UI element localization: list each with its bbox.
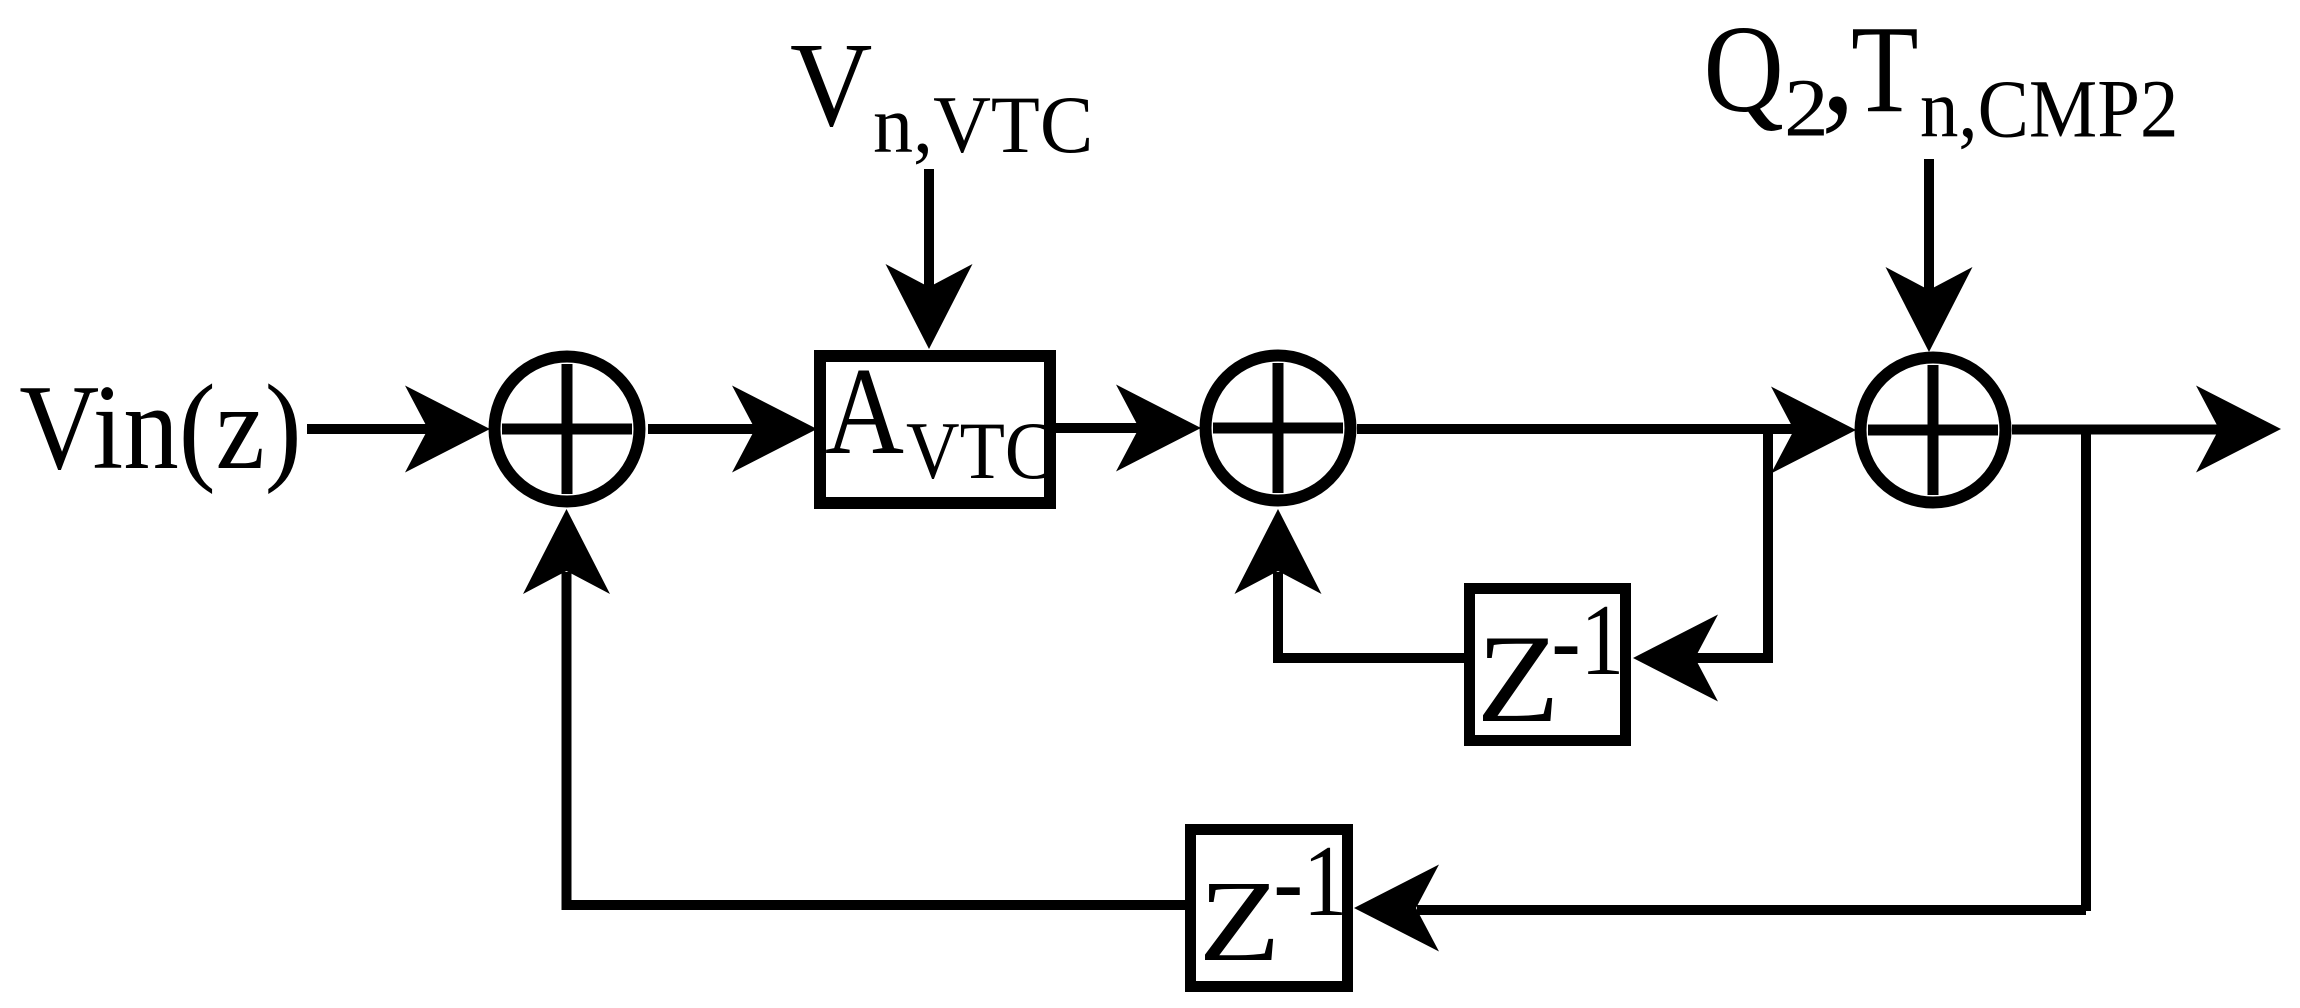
svg-text:Q: Q — [1704, 0, 1784, 138]
wire Z1 output to S2 — [1278, 572, 1464, 658]
wire S2 to summer S3 — [1357, 424, 1800, 434]
plus sign S1 — [502, 364, 632, 494]
svg-text:V: V — [790, 18, 872, 152]
wire A_VTC to summer S2 — [1056, 423, 1145, 433]
plus sign S3 — [1868, 365, 1998, 495]
svg-text:Vin(z): Vin(z) — [19, 360, 301, 495]
node: branch of inner feedback — [1763, 429, 1773, 658]
svg-text:-1: -1 — [1274, 824, 1348, 937]
arrowhead into S1 — [405, 386, 490, 473]
arrowhead into S3 — [1771, 387, 1856, 474]
arrowhead into top of S3 — [1886, 267, 1973, 352]
plus sign S2 — [1213, 363, 1343, 493]
svg-text:Z: Z — [1477, 610, 1560, 749]
arrowhead into A_VTC — [732, 386, 817, 473]
arrowhead into bottom of S2 — [1235, 509, 1322, 594]
delay block Z2 (outer feedback) — [1191, 830, 1348, 987]
output wire from S3 — [2012, 425, 2222, 435]
svg-text:n,CMP2: n,CMP2 — [1920, 64, 2178, 155]
svg-text:n,VTC: n,VTC — [873, 79, 1093, 170]
node: branch of outer feedback — [2081, 430, 2091, 911]
svg-text:A: A — [825, 342, 904, 480]
arrowhead into S2 — [1116, 385, 1201, 472]
arrowhead into Z1 — [1633, 615, 1718, 702]
noise label Q2,Tn,CMP2 — [1704, 0, 2179, 155]
svg-text:T: T — [1851, 0, 1919, 139]
svg-text:-1: -1 — [1552, 583, 1625, 697]
svg-text:VTC: VTC — [906, 405, 1054, 496]
summing node S3 — [1861, 358, 2006, 503]
wire branch to Z1 input — [1690, 653, 1773, 663]
wire Z2 output to S1 — [567, 572, 1186, 905]
summing node S1 — [495, 357, 640, 502]
arrowhead into top of A_VTC — [886, 264, 973, 349]
summing node S2 — [1206, 356, 1351, 501]
wire branch to Z2 input — [1417, 905, 2086, 915]
block A_VTC — [820, 356, 1050, 503]
output arrowhead — [2196, 386, 2281, 473]
delay block Z1 (inner feedback) — [1470, 589, 1626, 741]
arrowhead into Z2 — [1354, 865, 1439, 952]
svg-text:Z: Z — [1199, 857, 1281, 986]
wire Vn,VTC into A_VTC — [924, 169, 934, 289]
wire S1 to A_VTC — [648, 424, 762, 434]
wire Q2,Tn,CMP2 into S3 — [1924, 159, 1934, 292]
wire Vin to summer S1 — [307, 424, 430, 434]
arrowhead into bottom of S1 — [523, 509, 610, 594]
